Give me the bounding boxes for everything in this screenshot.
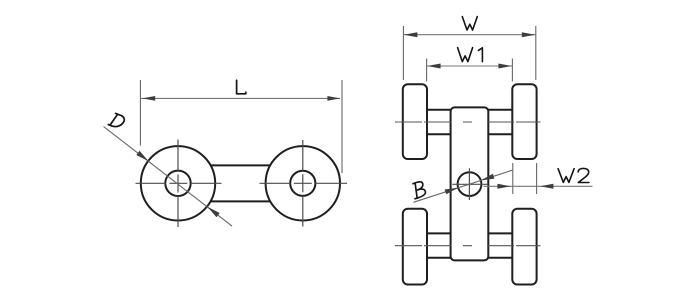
dimension W1 arrow left [427,64,441,69]
label D [108,112,125,129]
dimension L line [141,97,340,99]
dimension W arrow right [522,32,536,37]
axle top left lines [427,110,451,134]
dimension B arrow left [445,188,459,195]
dimension W2 extension line right [536,163,538,194]
label B [410,181,427,199]
axle top right lines [488,110,512,134]
dimension D line (through left wheel at 37.8deg) [104,127,233,227]
dimension W line [403,34,535,36]
body plate [451,107,489,260]
dimension W2 line middle segment [513,185,537,187]
dimension W arrow left [404,32,418,37]
dimension B line (through hub at -18deg) [413,170,512,202]
centerline axle top (dash-dot) [395,121,541,123]
hub hole B circle [458,172,482,196]
dimension D arrow upper [136,151,148,161]
dimension L arrow right [327,96,340,101]
wheel top-left [403,84,427,159]
axle bottom right lines [488,233,512,257]
dimension B arrow right [481,174,495,181]
wheel right hub circle [290,171,315,196]
wheel bottom-left [403,209,427,285]
dimension L extension line right [341,80,343,173]
connecting bar top edge [211,164,270,166]
dimension W2 line left segment [484,185,513,187]
dimension W2 arrow left (points right) [497,184,511,189]
dimension W extension line left [402,26,404,80]
label W [462,17,477,30]
dimension L extension line left [139,80,141,146]
wheel left hub circle [165,171,190,196]
label W2 [558,168,589,182]
dimension D arrow lower [207,207,219,217]
wheel right outer circle [266,146,340,220]
wheel bottom-right [512,209,536,285]
dimension W1 extension line right [511,59,513,82]
dimension W2 arrow right (points left) [540,184,554,189]
crosshair centerlines wheel left [136,140,222,228]
centerline axle bottom (dash-dot) [395,245,541,247]
label W1 [458,48,483,62]
axle bottom left lines [427,233,451,257]
label L [237,80,246,94]
dimension W1 arrow right [498,64,512,69]
wheel top-right [512,84,536,159]
dimension L arrow left [142,96,155,101]
dimension W2 line right segment [537,185,593,187]
dimension W extension line right [535,26,537,80]
crosshair centerlines wheel right [260,140,348,227]
connecting bar bottom edge [211,200,270,202]
wheel left outer circle [141,146,215,220]
dimension W2 extension line left [512,163,514,194]
dimension W1 line [427,65,513,67]
crosshair hub B [452,168,488,200]
dimension W1 extension line left [426,59,428,82]
